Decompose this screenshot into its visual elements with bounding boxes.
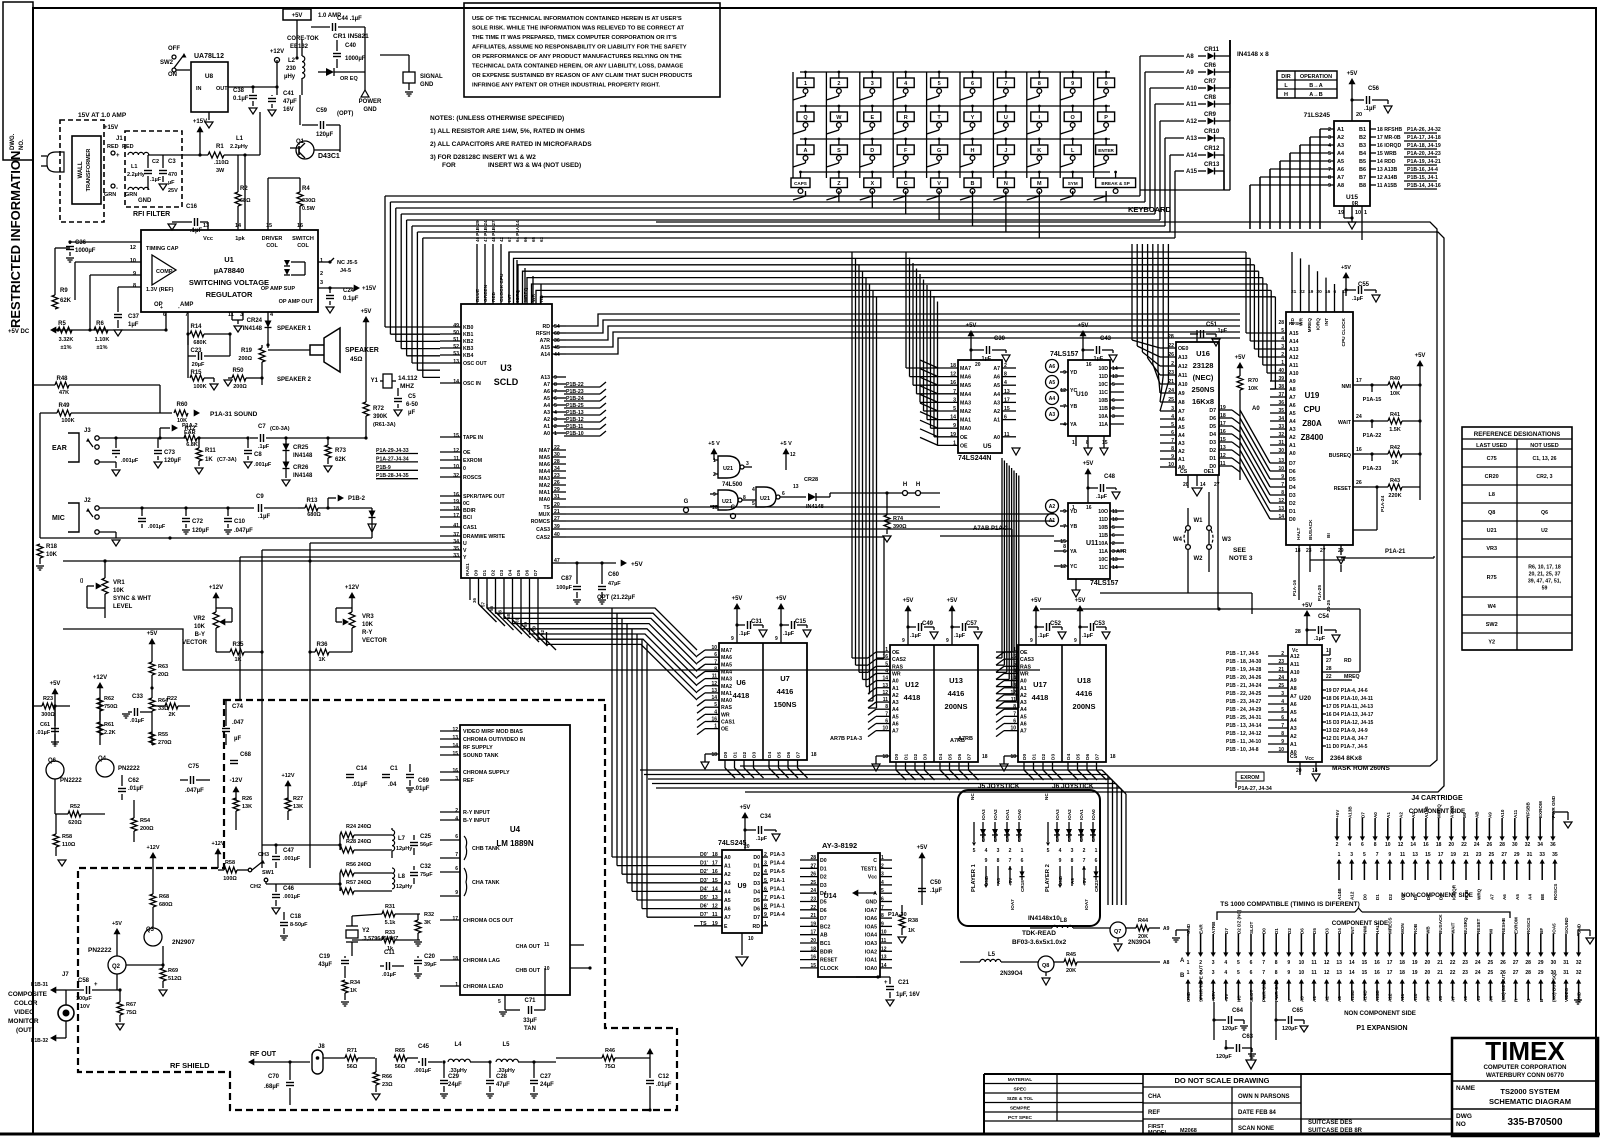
svg-text:18: 18 — [1399, 970, 1405, 976]
svg-text:1: 1 — [1326, 648, 1329, 654]
svg-text:C15: C15 — [795, 619, 807, 625]
U3 top pin INT — [508, 252, 510, 304]
svg-text:+5V: +5V — [1347, 71, 1358, 77]
svg-text:11: 11 — [544, 942, 550, 948]
svg-text:RED: RED — [107, 144, 119, 150]
svg-text:SW2: SW2 — [1486, 622, 1498, 628]
svg-text:D0: D0 — [1362, 894, 1367, 900]
svg-text:512Ω: 512Ω — [168, 976, 182, 982]
svg-text:U7: U7 — [780, 674, 790, 683]
svg-text:5: 5 — [1328, 151, 1331, 157]
svg-text:21: 21 — [1291, 289, 1297, 295]
svg-text:COLOR: COLOR — [14, 1000, 38, 1007]
svg-text:7: 7 — [455, 852, 458, 858]
svg-text:ROSCS: ROSCS — [1553, 884, 1558, 900]
svg-text:D7: D7 — [1289, 461, 1296, 467]
svg-text:CR28: CR28 — [804, 477, 818, 483]
svg-text:1K: 1K — [350, 988, 357, 994]
svg-text:3: 3 — [1212, 970, 1215, 976]
svg-text:D6: D6 — [525, 570, 531, 576]
svg-text:C2: C2 — [152, 159, 159, 165]
svg-text:42: 42 — [499, 236, 504, 242]
svg-text:CR26: CR26 — [293, 465, 309, 471]
svg-text:J4-5: J4-5 — [340, 268, 351, 274]
svg-text:.110Ω: .110Ω — [214, 160, 229, 166]
svg-text:.1µF: .1µF — [190, 228, 202, 234]
svg-text:Q2: Q2 — [112, 964, 121, 970]
capacitor C73s — [112, 450, 120, 452]
svg-text:A2: A2 — [543, 417, 550, 423]
svg-text:64 P1A-14: 64 P1A-14 — [515, 220, 520, 242]
svg-text:MA2: MA2 — [539, 483, 550, 489]
svg-text:+5V: +5V — [1335, 809, 1340, 818]
svg-text:C8: C8 — [254, 452, 262, 458]
svg-text:67: 67 — [507, 236, 512, 242]
U19 top pin CPU CLOCK — [1342, 290, 1344, 312]
svg-text:36: 36 — [472, 598, 477, 604]
svg-text:C64: C64 — [1232, 1008, 1244, 1014]
svg-text:CAPS: CAPS — [794, 181, 807, 186]
svg-text:R18: R18 — [46, 544, 58, 550]
svg-text:A0: A0 — [892, 679, 899, 685]
svg-text:100µF: 100µF — [556, 585, 572, 591]
svg-text:L1: L1 — [131, 164, 137, 170]
svg-text:DO NOT SCALE DRAWING: DO NOT SCALE DRAWING — [1175, 1076, 1270, 1085]
svg-text:GRN: GRN — [125, 192, 137, 198]
AC plug — [47, 152, 64, 172]
svg-text:+12V: +12V — [270, 49, 284, 55]
svg-text:R60: R60 — [176, 402, 188, 408]
svg-text:MATERIAL: MATERIAL — [1008, 1077, 1032, 1083]
svg-text:Y: Y — [971, 115, 975, 121]
svg-text:SCLD: SCLD — [494, 377, 519, 387]
svg-text:31: 31 — [1563, 960, 1569, 966]
U3 bottom pins D0-D7 — [469, 578, 471, 600]
svg-text:+5V: +5V — [1302, 603, 1313, 609]
svg-text:C54: C54 — [1318, 614, 1330, 620]
svg-text:A8: A8 — [1163, 960, 1170, 966]
U3 top pin MREQ — [524, 268, 526, 304]
svg-text:5.1k: 5.1k — [385, 920, 397, 926]
svg-text:+5V: +5V — [740, 805, 751, 811]
svg-text:A3: A3 — [1020, 700, 1027, 706]
resistor R72 — [363, 316, 370, 322]
svg-text:V: V — [463, 548, 467, 554]
svg-text:TAN: TAN — [524, 1026, 536, 1032]
svg-text:SYNC & WHT: SYNC & WHT — [113, 596, 151, 602]
svg-text:12: 12 — [1060, 388, 1066, 394]
svg-text:2: 2 — [1083, 848, 1086, 854]
svg-text:+: + — [116, 153, 120, 159]
svg-text:74LS244N: 74LS244N — [958, 455, 991, 462]
svg-text:31: 31 — [1527, 852, 1533, 858]
svg-text:ROMCS: ROMCS — [531, 519, 551, 525]
key 7 — [997, 78, 1014, 88]
svg-text:28: 28 — [1295, 629, 1301, 635]
svg-text:VIDEO: VIDEO — [14, 1009, 34, 1016]
svg-text:U1: U1 — [224, 255, 234, 264]
svg-text:D6: D6 — [1289, 469, 1296, 475]
svg-text:U19: U19 — [1305, 391, 1320, 400]
svg-text:750Ω: 750Ω — [104, 704, 118, 710]
svg-text:RFSH: RFSH — [536, 331, 550, 337]
svg-text:12: 12 — [1324, 970, 1330, 976]
svg-text:22: 22 — [1300, 289, 1306, 295]
node A1 — [1046, 514, 1059, 527]
svg-text:A9: A9 — [1186, 70, 1194, 76]
+5V U9 — [742, 812, 749, 818]
svg-text:18: 18 — [1110, 754, 1116, 760]
svg-text:18: 18 — [1295, 548, 1301, 554]
svg-text:C69: C69 — [418, 778, 430, 784]
svg-text:CR10: CR10 — [1204, 129, 1220, 135]
svg-text:MREQ: MREQ — [1344, 674, 1360, 680]
svg-text:SPKR TAPE OUT: SPKR TAPE OUT — [1199, 965, 1204, 1002]
svg-text:A15: A15 — [1289, 331, 1299, 337]
svg-text:4: 4 — [752, 487, 755, 493]
svg-text:P1B-14, J4-16: P1B-14, J4-16 — [1407, 183, 1441, 189]
svg-text:+12V: +12V — [147, 845, 160, 851]
svg-text:U21: U21 — [760, 496, 770, 502]
svg-text:CLOCK CPU: CLOCK CPU — [499, 273, 505, 302]
svg-text:Y: Y — [463, 555, 467, 561]
svg-text:D6: D6 — [1299, 928, 1304, 934]
svg-text:BDIR: BDIR — [463, 508, 476, 514]
svg-text:IN4148 x 8: IN4148 x 8 — [1237, 51, 1269, 58]
svg-text:IOA2: IOA2 — [993, 809, 998, 820]
key Z — [830, 178, 847, 188]
svg-text:34: 34 — [1537, 842, 1543, 848]
svg-text:22: 22 — [1326, 674, 1332, 680]
key F — [897, 145, 914, 155]
svg-text:+5V DC: +5V DC — [8, 329, 30, 335]
svg-text:1: 1 — [320, 258, 323, 264]
internal diodes — [284, 260, 290, 266]
capacitor C72a — [138, 518, 146, 520]
svg-text:B: B — [971, 181, 975, 187]
svg-text:50: 50 — [453, 330, 459, 336]
svg-text:C62: C62 — [128, 778, 140, 784]
svg-text:A7RB: A7RB — [1449, 805, 1454, 818]
svg-text:74LS157: 74LS157 — [1050, 351, 1079, 358]
wire — [296, 20, 298, 58]
svg-text:-: - — [116, 186, 118, 192]
svg-text:A12: A12 — [1388, 993, 1393, 1002]
nand gate U21a — [718, 456, 740, 478]
wire P1A-21 — [1340, 565, 1342, 572]
svg-text:SPEAKER: SPEAKER — [345, 347, 379, 354]
svg-text:44: 44 — [554, 352, 560, 358]
svg-text:IN4148x10: IN4148x10 — [1028, 915, 1060, 922]
svg-text:+: + — [94, 982, 98, 988]
svg-text:A15: A15 — [1186, 169, 1198, 175]
svg-text:9: 9 — [455, 890, 458, 896]
svg-text:MA0: MA0 — [960, 426, 971, 432]
svg-text:EXROM: EXROM — [1514, 917, 1519, 934]
svg-text:5: 5 — [554, 403, 557, 409]
svg-text:RF SHIELD: RF SHIELD — [170, 1061, 210, 1070]
key N — [997, 178, 1014, 188]
svg-text:19: 19 — [1412, 960, 1418, 966]
svg-text:(C7-3A): (C7-3A) — [217, 457, 237, 463]
svg-text:R73: R73 — [335, 448, 347, 454]
svg-text:FOR: FOR — [442, 162, 456, 169]
svg-text:P1B - 23, J4-27: P1B - 23, J4-27 — [1226, 699, 1262, 705]
svg-text:C33: C33 — [132, 694, 144, 700]
svg-text:1000µF: 1000µF — [345, 56, 366, 62]
+12V terminal — [275, 58, 280, 63]
svg-text:P1A-16: P1A-16 — [1292, 580, 1298, 597]
svg-text:24µF: 24µF — [540, 1082, 554, 1088]
svg-text:1: 1 — [804, 81, 807, 87]
svg-text:H: H — [903, 482, 907, 488]
svg-text:µF: µF — [408, 410, 415, 416]
svg-text:24µF: 24µF — [448, 1082, 462, 1088]
svg-text:IOA5: IOA5 — [865, 924, 877, 930]
svg-text:C75: C75 — [188, 764, 200, 770]
svg-text:P1B - 25, J4-31: P1B - 25, J4-31 — [1226, 715, 1262, 721]
svg-text:5: 5 — [752, 501, 755, 507]
svg-text:14: 14 — [235, 223, 242, 229]
svg-text:NAME: NAME — [1456, 1085, 1476, 1092]
svg-text:RED: RED — [491, 291, 497, 302]
svg-text:16: 16 — [1086, 362, 1092, 368]
svg-text:D0: D0 — [723, 752, 729, 758]
svg-text:RFSBB: RFSBB — [1526, 801, 1531, 818]
svg-text:12: 12 — [1398, 842, 1404, 848]
svg-text:18: 18 — [811, 752, 817, 758]
key W — [830, 112, 847, 122]
svg-text:EXROM: EXROM — [1538, 801, 1543, 818]
svg-text:P1A-21: P1A-21 — [1385, 549, 1406, 555]
svg-text:A10: A10 — [1178, 382, 1188, 388]
svg-text:0.5W: 0.5W — [302, 206, 316, 212]
svg-text:TAPE IN: TAPE IN — [463, 435, 483, 441]
svg-text:RESHB: RESHB — [1501, 917, 1506, 934]
svg-text:BUSRQ: BUSRQ — [1463, 917, 1468, 934]
svg-text:VIDEO M/RF MOD BIAS: VIDEO M/RF MOD BIAS — [463, 729, 523, 735]
svg-text:CAS3: CAS3 — [536, 527, 550, 533]
svg-text:OR EQ: OR EQ — [340, 76, 358, 82]
svg-text:(): () — [80, 578, 84, 584]
svg-text:120µF: 120µF — [192, 528, 209, 534]
+5V U5 — [968, 330, 975, 336]
svg-text:A12: A12 — [1350, 891, 1355, 900]
svg-text:59: 59 — [1542, 586, 1548, 592]
svg-text:P1B - 13, J4-14: P1B - 13, J4-14 — [1226, 723, 1262, 729]
svg-text:SLOT: SLOT — [1249, 922, 1254, 934]
svg-text:NOTE 3: NOTE 3 — [1229, 555, 1253, 562]
svg-text:WAIT: WAIT — [1338, 420, 1352, 426]
svg-text:26: 26 — [1500, 960, 1506, 966]
svg-text:VECTOR: VECTOR — [182, 640, 208, 646]
svg-text:IOA4: IOA4 — [865, 933, 877, 939]
svg-text:.01µF: .01µF — [382, 972, 397, 978]
svg-text:330Ω: 330Ω — [302, 198, 316, 204]
svg-text:MA4: MA4 — [539, 469, 550, 475]
svg-text:5: 5 — [1237, 970, 1240, 976]
svg-text:11A: 11A — [1099, 422, 1108, 428]
key B — [964, 178, 981, 188]
capacitor C31 — [734, 603, 741, 609]
svg-text:EXROM: EXROM — [1240, 775, 1259, 781]
svg-text:D4: D4 — [1066, 754, 1072, 760]
svg-text:IOA3: IOA3 — [981, 809, 986, 820]
svg-text:D5: D5 — [1076, 754, 1082, 760]
svg-text:30: 30 — [1551, 960, 1557, 966]
svg-text:U5: U5 — [983, 443, 992, 450]
svg-text:8: 8 — [1275, 970, 1278, 976]
IC U3 SCLD — [461, 304, 552, 578]
svg-text:18: 18 — [452, 956, 458, 962]
svg-text:5: 5 — [938, 81, 941, 87]
svg-text:MA7: MA7 — [960, 366, 971, 372]
svg-text:R22: R22 — [167, 696, 177, 702]
svg-text:+5V: +5V — [947, 598, 958, 604]
svg-text:U8: U8 — [205, 73, 214, 80]
svg-text:8: 8 — [554, 382, 557, 388]
svg-text:CLOCK: CLOCK — [820, 966, 839, 972]
svg-text:39, 47, 47, 51,: 39, 47, 47, 51, — [1528, 579, 1562, 585]
+5V R70 — [1237, 362, 1244, 368]
svg-text:A0: A0 — [724, 855, 731, 861]
svg-text:230: 230 — [286, 66, 297, 72]
svg-text:20: 20 — [1425, 970, 1431, 976]
svg-text:A7RB: A7RB — [950, 738, 965, 744]
svg-text:A6: A6 — [1289, 403, 1296, 409]
svg-text:.1µF: .1µF — [258, 514, 270, 520]
svg-text:-12V: -12V — [230, 778, 243, 784]
svg-text:D1: D1 — [820, 866, 827, 872]
svg-text:52: 52 — [453, 344, 459, 350]
svg-text:YA: YA — [1070, 422, 1077, 428]
svg-text:YB: YB — [1070, 524, 1077, 530]
svg-text:A8: A8 — [1186, 54, 1194, 60]
svg-text:2: 2 — [837, 81, 840, 87]
svg-text:A→B: A→B — [1309, 92, 1322, 98]
svg-text:D7: D7 — [1224, 928, 1229, 934]
key 5 — [931, 78, 948, 88]
svg-text:+12V: +12V — [212, 841, 225, 847]
svg-text:+15V: +15V — [362, 286, 376, 292]
svg-text:1: 1 — [713, 458, 716, 464]
svg-text:8-50µF: 8-50µF — [290, 922, 308, 928]
svg-text:16 IORQD: 16 IORQD — [1377, 143, 1401, 149]
svg-text:.1µF: .1µF — [150, 177, 162, 183]
svg-text:C21: C21 — [898, 980, 910, 986]
svg-text:DIR: DIR — [1281, 74, 1291, 80]
key P — [1098, 112, 1115, 122]
U15 area staircase — [1319, 129, 1321, 229]
svg-text:IOA2: IOA2 — [1067, 809, 1072, 820]
svg-text:N: N — [1004, 181, 1008, 187]
svg-text:B5: B5 — [1359, 159, 1366, 165]
svg-text:BCI: BCI — [463, 515, 472, 521]
svg-text:8: 8 — [1063, 544, 1066, 550]
svg-text:TS: TS — [543, 505, 550, 511]
svg-text:X: X — [870, 181, 874, 187]
svg-text:27: 27 — [1513, 970, 1519, 976]
svg-text:17: 17 — [1387, 970, 1393, 976]
svg-text:OE: OE — [960, 443, 968, 449]
svg-text:D43C1: D43C1 — [318, 153, 340, 160]
svg-text:8: 8 — [1038, 81, 1041, 87]
svg-text:R65: R65 — [395, 1048, 405, 1054]
svg-text:IN4148: IN4148 — [243, 326, 263, 332]
svg-text:SCHEMATIC DIAGRAM: SCHEMATIC DIAGRAM — [1489, 1097, 1571, 1106]
svg-text:15 WRB: 15 WRB — [1377, 151, 1397, 157]
svg-text:MREQ: MREQ — [1307, 318, 1313, 333]
svg-text:19: 19 — [453, 499, 459, 505]
svg-text:C11: C11 — [384, 950, 395, 956]
svg-text:RFSH: RFSH — [1289, 321, 1302, 326]
svg-text:J4-25: J4-25 — [1326, 600, 1332, 613]
svg-text:R61: R61 — [104, 722, 114, 728]
P1A-2 EAR arrow — [159, 428, 161, 438]
svg-text:DWG.: DWG. — [10, 133, 16, 150]
svg-text:M2068: M2068 — [1180, 1128, 1197, 1134]
svg-text:C12: C12 — [658, 1074, 670, 1080]
svg-text:B-Y: B-Y — [195, 632, 205, 638]
svg-text:+5V: +5V — [1341, 265, 1351, 271]
svg-text:A7: A7 — [543, 382, 550, 388]
svg-text:11A: 11A — [1099, 549, 1108, 555]
svg-text:WAIT: WAIT — [1451, 922, 1456, 934]
svg-text:48 P1B-27: 48 P1B-27 — [491, 220, 496, 242]
EXROM label — [1236, 772, 1264, 781]
svg-text:3: 3 — [455, 776, 458, 782]
svg-text:9: 9 — [946, 638, 949, 644]
svg-text:13: 13 — [1112, 557, 1118, 563]
svg-text:IOA3: IOA3 — [1055, 809, 1060, 820]
svg-text:E: E — [724, 924, 728, 930]
svg-text:28: 28 — [1278, 320, 1284, 326]
svg-text:IN4148: IN4148 — [293, 473, 313, 479]
svg-text:620Ω: 620Ω — [68, 820, 82, 826]
svg-text:YD: YD — [1070, 370, 1077, 376]
svg-text:CHROMA OCS OUT: CHROMA OCS OUT — [463, 918, 514, 924]
svg-text:10V: 10V — [80, 1004, 90, 1010]
svg-text:10: 10 — [1385, 842, 1391, 848]
svg-text:J3: J3 — [84, 428, 91, 434]
inductor L1 RFI — [128, 152, 149, 155]
svg-text:2.2µHy: 2.2µHy — [230, 144, 249, 150]
svg-text:MA5: MA5 — [721, 662, 732, 668]
svg-text:R58: R58 — [62, 834, 72, 840]
svg-text:P1A-1: P1A-1 — [770, 904, 785, 910]
svg-text:UA78L12: UA78L12 — [194, 53, 224, 60]
svg-text:GND: GND — [138, 198, 152, 204]
svg-text:DATE FEB 84: DATE FEB 84 — [1238, 1110, 1277, 1116]
svg-text:9: 9 — [902, 638, 905, 644]
svg-text:28: 28 — [1525, 960, 1531, 966]
svg-text:A5: A5 — [1289, 411, 1296, 417]
svg-text:VR2: VR2 — [193, 616, 205, 622]
svg-text:BF03-3.6x5x1.0x2: BF03-3.6x5x1.0x2 — [1012, 939, 1067, 946]
svg-text:SPEAKER 2: SPEAKER 2 — [277, 377, 312, 383]
svg-text:A7: A7 — [1289, 395, 1296, 401]
svg-text:EE132: EE132 — [290, 44, 309, 50]
key U — [997, 112, 1014, 122]
ROM U20 2364 — [1288, 645, 1322, 762]
svg-text:35: 35 — [453, 546, 459, 552]
svg-text:P1A-31 SOUND: P1A-31 SOUND — [210, 411, 258, 418]
svg-text:17: 17 — [1438, 852, 1444, 858]
svg-text:TS2000 SYSTEM: TS2000 SYSTEM — [1500, 1087, 1559, 1096]
svg-text:20: 20 — [975, 362, 981, 368]
svg-text:R14: R14 — [190, 324, 202, 330]
ROM U16 23128 — [1176, 342, 1219, 475]
